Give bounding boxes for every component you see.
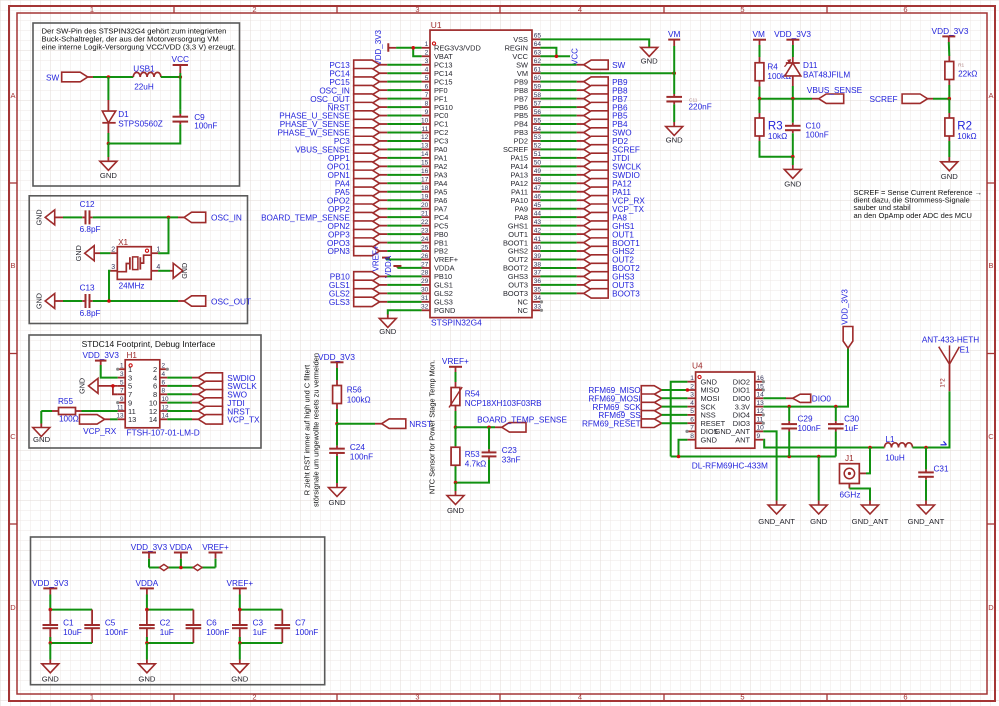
wire VBUS_SENSE to U1: [380, 148, 388, 150]
junction pin1 node: [411, 46, 415, 50]
wire D1 to gnd rail: [107, 133, 109, 144]
svg-text:C6: C6: [206, 619, 217, 628]
wire OPN3 to U1: [380, 250, 388, 252]
svg-text:NCP18XH103F03RB: NCP18XH103F03RB: [465, 399, 542, 408]
svg-text:33nF: 33nF: [502, 456, 521, 465]
wire RFM69_RESET to U4: [662, 422, 688, 424]
svg-text:C9: C9: [194, 113, 205, 122]
svg-text:J1: J1: [845, 454, 854, 463]
ground: [941, 157, 958, 171]
svg-text:38: 38: [534, 261, 542, 268]
pin 35 of U1 (BOOT3): [532, 292, 540, 294]
port PC14: [354, 69, 380, 78]
pin 4 of H1: [160, 377, 168, 379]
port JTDI: [584, 153, 609, 162]
capacitor C9: [179, 109, 181, 114]
pin1 marker: [432, 42, 435, 45]
junction SW/D1 node: [107, 75, 111, 79]
junction node B: [487, 426, 491, 430]
svg-text:28: 28: [421, 270, 429, 277]
wire PA5 to U1: [380, 191, 388, 193]
pin 44 of U1 (PA8): [532, 216, 540, 218]
pin 51 of U1 (PA15): [532, 157, 540, 159]
svg-text:VM: VM: [668, 29, 681, 39]
pin 30 of U1 (GLS2): [422, 292, 430, 294]
wire U4 pin1 GND down: [671, 382, 688, 457]
junction gnd node: [454, 481, 458, 485]
wire VDD to pin3: [101, 365, 118, 378]
port PA4: [354, 179, 380, 188]
wire gnd rail: [108, 129, 180, 144]
svg-text:100nF: 100nF: [206, 628, 229, 637]
port OPO1: [354, 162, 380, 171]
pin 42 of U1 (OUT1): [532, 233, 540, 235]
wire VDDA to pin27: [397, 267, 421, 269]
svg-text:ANT: ANT: [735, 435, 750, 444]
pin 10 of U4 (GND_ANT): [755, 430, 764, 432]
pin 52 of U1 (SCREF): [532, 148, 540, 150]
pin 5 of U1 (PC15): [422, 81, 430, 83]
port VDD_3V3 (down): [843, 327, 853, 349]
svg-text:45: 45: [534, 202, 542, 209]
svg-text:22: 22: [421, 219, 429, 226]
svg-text:VDD_3V3: VDD_3V3: [318, 352, 355, 362]
wire U1 to port PB4: [540, 123, 576, 125]
port PHASE_V_SENSE: [354, 119, 380, 128]
svg-text:VDD_3V3: VDD_3V3: [932, 26, 969, 36]
svg-text:51: 51: [534, 151, 542, 158]
wire H1 to port VCP_TX: [167, 418, 192, 420]
port BOARD_TEMP_SENSE: [502, 423, 526, 433]
wire to ground: [107, 144, 109, 158]
capacitor C24: [336, 443, 338, 446]
wire RFM69_MISO to U4: [662, 389, 688, 391]
pin 64 of U1 (REGIN): [532, 47, 540, 49]
capacitor C23: [488, 447, 490, 449]
wire U1 to port BOOT2: [540, 267, 576, 269]
wire U1 to port PB8: [540, 89, 576, 91]
pin 7 of U4 (DIO5): [687, 430, 695, 432]
wire U1 to port BOOT1: [540, 242, 576, 244]
pin 4 of U4 (SCK): [687, 406, 695, 408]
wire gnd to C13: [55, 300, 79, 302]
svg-text:BOARD_TEMP_SENSE: BOARD_TEMP_SENSE: [477, 414, 567, 424]
wire U1 to port PD2: [540, 140, 576, 142]
pin 14 of H1: [160, 418, 168, 420]
pin 3 of U1 (PC13): [422, 64, 430, 66]
port PB5: [584, 111, 609, 120]
connector J1: [840, 464, 860, 484]
svg-text:GND: GND: [138, 674, 156, 683]
svg-text:A: A: [10, 91, 15, 100]
svg-text:6: 6: [162, 379, 166, 386]
ground GND_ANT: [768, 501, 785, 515]
pin 34 of U1 (NC): [532, 301, 540, 303]
wire R55 to ground: [40, 411, 42, 424]
svg-text:NC: NC: [517, 306, 528, 315]
port SWO: [198, 390, 222, 400]
svg-text:55: 55: [534, 117, 542, 124]
junction J1 branch: [868, 446, 872, 450]
wire U1 to port GHS3: [540, 275, 576, 277]
note SCREF text: [854, 188, 983, 220]
wire top rail: [240, 609, 282, 611]
port SW: [584, 60, 609, 69]
wire pin10 GND_ANT: [763, 431, 776, 500]
capacitor C30: [835, 407, 837, 422]
wire U1 to port VCP_RX: [540, 199, 576, 201]
svg-text:3: 3: [415, 5, 419, 14]
svg-text:R54: R54: [465, 390, 480, 399]
port OPP3: [354, 229, 380, 238]
svg-text:PGND: PGND: [434, 306, 455, 315]
junction C29 top: [787, 405, 791, 409]
svg-text:10uF: 10uF: [63, 628, 82, 637]
ground left of C13: [45, 294, 55, 309]
port BOOT2: [584, 263, 609, 272]
svg-text:9: 9: [425, 109, 429, 116]
port OSC_IN: [184, 212, 206, 222]
svg-text:220nF: 220nF: [689, 103, 712, 112]
port PB4: [584, 119, 609, 128]
power flag VDD_3V3: [388, 43, 396, 52]
svg-text:GND: GND: [447, 506, 465, 515]
ground right of X1 pin4: [173, 263, 183, 278]
pin 14 of U1 (PA1): [422, 157, 430, 159]
wire U1 to port VCP_TX: [540, 208, 576, 210]
wire bottom rail: [146, 637, 148, 643]
svg-text:GND: GND: [328, 498, 346, 507]
svg-text:B: B: [988, 261, 993, 270]
wire C24 to ground: [336, 459, 338, 483]
pin 50 of U1 (PA14): [532, 165, 540, 167]
svg-text:USB1: USB1: [133, 65, 155, 74]
pin 59 of U1 (PB8): [532, 89, 540, 91]
svg-text:L1: L1: [885, 435, 895, 444]
svg-text:4: 4: [425, 67, 429, 74]
wire U1 to port SW: [540, 64, 576, 66]
svg-text:26: 26: [421, 253, 429, 260]
note box: debug interface: [29, 335, 261, 448]
svg-text:D: D: [988, 603, 994, 612]
port OPP2: [354, 204, 380, 213]
wire R56 to node: [336, 409, 338, 424]
svg-text:VDD_3V3: VDD_3V3: [82, 351, 119, 360]
port RFM69_MOSI: [641, 394, 661, 403]
svg-text:2: 2: [111, 247, 115, 254]
port BOOT3: [584, 289, 609, 298]
pin 7 of U1 (PF1): [422, 98, 430, 100]
pin 2 of X1: [110, 247, 117, 254]
svg-text:E1: E1: [960, 345, 970, 354]
power flag VM: [668, 40, 680, 74]
port VCP_TX: [198, 415, 222, 425]
wire U1 to port PB5: [540, 115, 576, 117]
resistor R53: [455, 446, 457, 447]
wire SCREF to node: [928, 98, 950, 100]
wire J1 shield to GND_ANT: [849, 484, 870, 501]
wire OSC_OUT to U1: [380, 98, 388, 100]
svg-text:30: 30: [421, 287, 429, 294]
ground: [100, 157, 117, 170]
svg-text:31: 31: [421, 295, 429, 302]
crystal X1: [117, 247, 151, 280]
pin 36 of U1 (OUT3): [532, 284, 540, 286]
svg-text:6: 6: [903, 693, 907, 702]
wire RFM69_SS to U4: [662, 414, 688, 416]
pin 55 of U1 (PB4): [532, 123, 540, 125]
wire to ground: [146, 643, 148, 660]
ground: [33, 424, 50, 437]
svg-text:OPN3: OPN3: [328, 247, 351, 256]
wire U1 to port SWCLK: [540, 165, 576, 167]
wire OPP1 to U1: [380, 157, 388, 159]
svg-text:4.7kΩ: 4.7kΩ: [465, 460, 487, 469]
wire node to port: [337, 423, 375, 425]
pin 26 of U1 (VREF+): [422, 259, 430, 261]
junction R4 node: [758, 97, 762, 101]
pin 24 of U1 (PB1): [422, 242, 430, 244]
svg-text:24: 24: [421, 236, 429, 243]
svg-text:46: 46: [534, 194, 542, 201]
power flag VREF+: [233, 587, 247, 589]
svg-text:2: 2: [162, 363, 166, 370]
svg-text:65: 65: [534, 33, 542, 40]
port GHS2: [584, 246, 609, 255]
power flag VDD_3V3 (tie): [142, 553, 156, 568]
wire OPO3 to U1: [380, 242, 388, 244]
svg-text:13: 13: [421, 143, 429, 150]
power flag VDD_3V3: [331, 362, 344, 380]
svg-text:OSC_IN: OSC_IN: [211, 213, 242, 223]
port RFM69_RESET: [641, 419, 661, 428]
svg-text:ANT-433-HETH: ANT-433-HETH: [922, 336, 979, 345]
pin 11 of H1: [118, 410, 126, 412]
pin 17 of U1 (PA4): [422, 182, 430, 184]
port OSC_OUT: [354, 94, 380, 103]
svg-text:BAT48JFILM: BAT48JFILM: [803, 70, 850, 79]
svg-text:U1: U1: [431, 20, 442, 30]
svg-text:DL-RFM69HC-433M: DL-RFM69HC-433M: [692, 461, 768, 471]
power flag VCC: [173, 65, 188, 77]
junction NRST node: [335, 422, 339, 426]
svg-text:GND: GND: [641, 56, 659, 65]
svg-text:5: 5: [120, 379, 124, 386]
pin 41 of U1 (BOOT1): [532, 242, 540, 244]
svg-text:VREF+: VREF+: [442, 356, 469, 366]
svg-text:2: 2: [425, 50, 429, 57]
svg-text:C: C: [988, 432, 994, 441]
svg-text:4: 4: [162, 371, 166, 378]
svg-text:39: 39: [534, 253, 542, 260]
svg-text:62: 62: [534, 58, 542, 65]
ground: [784, 165, 801, 178]
pin 11 of U1 (PC2): [422, 131, 430, 133]
wire inductor to VCC node: [161, 76, 181, 78]
svg-text:100nF: 100nF: [194, 122, 217, 131]
wire to ground: [49, 643, 51, 660]
resistor R4: [759, 57, 761, 63]
svg-text:37: 37: [534, 270, 542, 277]
svg-text:17: 17: [421, 177, 429, 184]
note box: buck converter description: [33, 23, 240, 186]
wire gnd to pin2: [94, 252, 110, 254]
svg-text:C12: C12: [80, 200, 95, 209]
note box: oscillator: [29, 196, 247, 324]
svg-text:100nF: 100nF: [295, 628, 318, 637]
svg-text:1uF: 1uF: [253, 628, 267, 637]
port PB9: [584, 77, 609, 86]
junction C31 node: [924, 446, 928, 450]
svg-text:6: 6: [903, 5, 907, 14]
wire gnd to pin5 and pin7: [98, 385, 118, 387]
svg-text:VCP_TX: VCP_TX: [227, 415, 260, 425]
svg-text:42: 42: [534, 227, 542, 234]
pin 6 of U4 (RESET): [687, 422, 695, 424]
wire top rail: [50, 609, 92, 611]
wire OPO1 to U1: [380, 165, 388, 167]
port OPN1: [354, 170, 380, 179]
capacitor C1: [49, 610, 51, 625]
pin 8 of H1: [160, 393, 168, 395]
pin 28 of U1 (PB10): [422, 275, 430, 277]
wire U1 to port PA11: [540, 191, 576, 193]
junction VCC tie: [555, 54, 559, 58]
svg-text:VREF+: VREF+: [371, 245, 380, 271]
power flag VDD_3V3: [43, 587, 57, 589]
capacitor C12: [79, 216, 82, 218]
port VCP_TX: [584, 204, 609, 213]
svg-text:VREF+: VREF+: [202, 543, 229, 552]
pin 20 of U1 (PA7): [422, 208, 430, 210]
svg-text:C3: C3: [253, 619, 264, 628]
svg-text:1: 1: [425, 41, 429, 48]
svg-text:2: 2: [690, 383, 694, 390]
svg-text:GND: GND: [78, 378, 87, 394]
junction gnd symbol: [817, 455, 821, 459]
pin 13 of U1 (PA0): [422, 148, 430, 150]
port PB6: [584, 102, 609, 111]
pin 22 of U1 (PC5): [422, 225, 430, 227]
junction top: [49, 608, 53, 612]
svg-text:60: 60: [534, 75, 542, 82]
pin 65 of U1 (VSS): [532, 38, 540, 40]
svg-text:C1: C1: [63, 619, 74, 628]
capacitor C29: [788, 407, 790, 422]
no-connect pin34: [540, 300, 543, 303]
wire OPP3 to U1: [380, 233, 388, 235]
ground: [146, 660, 148, 664]
svg-text:VDD_3V3: VDD_3V3: [131, 543, 168, 552]
wire U1 to port PA12: [540, 182, 576, 184]
svg-text:52: 52: [534, 143, 542, 150]
port GLS3: [354, 297, 380, 306]
pin 54 of U1 (PB3): [532, 131, 540, 133]
pin 9 of U4 (ANT): [755, 439, 764, 441]
pin 33 of U1 (NC): [532, 309, 540, 311]
wire GND rail: [671, 456, 836, 458]
wire H1 to port SWDIO: [167, 377, 192, 379]
wire PC3 to U1: [380, 140, 388, 142]
svg-text:49: 49: [534, 168, 542, 175]
svg-text:STPS0560Z: STPS0560Z: [118, 119, 163, 128]
svg-text:GND: GND: [784, 180, 802, 189]
wire gnd to C12: [55, 216, 79, 218]
capacitor C10: [792, 120, 794, 123]
svg-text:C24: C24: [350, 443, 365, 452]
svg-text:7: 7: [425, 92, 429, 99]
wire GLS3 to U1: [380, 301, 388, 303]
junction SCREF node: [948, 97, 952, 101]
port NRST: [382, 419, 406, 429]
wire VCP_RX to pin13: [105, 418, 118, 420]
pin 62 of U1 (SW): [532, 64, 540, 66]
wire VCC node to C9: [179, 77, 181, 109]
svg-text:6GHz: 6GHz: [840, 491, 861, 500]
svg-text:58: 58: [534, 92, 542, 99]
diode D11: [785, 57, 801, 86]
svg-text:47: 47: [534, 185, 542, 192]
pin 4 of X1: [151, 264, 160, 271]
svg-text:C: C: [10, 432, 16, 441]
pin 25 of U1 (PB2): [422, 250, 430, 252]
svg-text:U4: U4: [692, 361, 703, 371]
svg-text:GND: GND: [33, 435, 51, 444]
port BOOT1: [584, 238, 609, 247]
wire U1 to port PB9: [540, 81, 576, 83]
U4 pins: [687, 375, 764, 444]
wire U1 to port GHS2: [540, 250, 576, 252]
pin 58 of U1 (PB7): [532, 98, 540, 100]
svg-text:GND_ANT: GND_ANT: [852, 517, 889, 526]
svg-text:24MHz: 24MHz: [119, 282, 145, 291]
svg-text:1*2: 1*2: [939, 378, 946, 388]
port PB7: [584, 94, 609, 103]
wire OPO2 to U1: [380, 199, 388, 201]
wire PA4 to U1: [380, 182, 388, 184]
svg-text:5: 5: [690, 408, 694, 415]
wire pin3 down to OSC_OUT node: [109, 271, 110, 301]
svg-text:STSPIN32G4: STSPIN32G4: [431, 317, 482, 327]
junction pin5 node: [111, 384, 115, 388]
wire H1 to port JTDI: [167, 402, 192, 404]
svg-text:C10: C10: [806, 122, 821, 131]
pin 12 of H1: [160, 410, 168, 412]
svg-text:48: 48: [534, 177, 542, 184]
pin 4 of U1 (PC14): [422, 72, 430, 74]
svg-text:6: 6: [425, 83, 429, 90]
svg-text:OSC_OUT: OSC_OUT: [211, 296, 251, 306]
svg-text:41: 41: [534, 236, 542, 243]
capacitor C31: [925, 468, 927, 469]
wire C23 branch: [488, 427, 490, 447]
wire U1 to port OUT3: [540, 284, 576, 286]
junction MISO pin: [686, 388, 690, 392]
pin 2 of U4 (MISO): [687, 389, 695, 391]
power flag VREF+: [449, 367, 462, 382]
svg-text:SW: SW: [46, 73, 59, 82]
svg-text:C29: C29: [798, 414, 813, 423]
IC U1 body: [430, 30, 532, 318]
port PA11: [584, 187, 609, 196]
junction VCC node: [179, 75, 183, 79]
wire C13 to OSC_OUT: [96, 300, 178, 302]
wire PHASE_U_SENSE to U1: [380, 115, 388, 117]
port VBUS_SENSE: [354, 145, 380, 154]
svg-text:8: 8: [690, 433, 694, 440]
wire VREF+ to pin26: [386, 259, 422, 261]
no-connect pin15: [762, 388, 765, 391]
